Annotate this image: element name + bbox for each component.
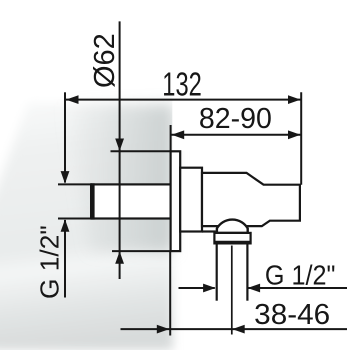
38-46 left-pointing arrowhead: [232, 325, 245, 334]
outlet ring: [214, 233, 250, 244]
white mask right of plate above body: [172, 90, 234, 151]
svg-text:G 1/2": G 1/2": [35, 225, 65, 299]
G 1/2 left up arrowhead: [61, 219, 70, 232]
dimension: Ø62 vertical leader line: [119, 21, 121, 279]
82-90 left arrowhead: [172, 130, 185, 139]
background darker blob near plate: [62, 105, 173, 252]
38-46 right-pointing arrowhead: [157, 325, 170, 334]
G 1/2 left-pointing arrowhead: [248, 284, 261, 293]
outlet dome: [217, 220, 248, 233]
38-46 left extension line (wall face extended down): [169, 251, 171, 335]
dimension: 38-46 line: [121, 328, 348, 330]
left vertical extension line lower: [64, 220, 66, 298]
132 right arrowhead: [288, 95, 301, 104]
svg-text:82-90: 82-90: [199, 102, 272, 134]
dimension: 132 line: [65, 99, 301, 101]
dimension: G 1/2 right, left tail: [179, 287, 215, 289]
dimension: G 1/2 right, right tail: [248, 287, 347, 289]
plate top extension line: [111, 150, 171, 152]
132 left arrowhead: [66, 95, 79, 104]
plate bottom extension line: [112, 250, 171, 252]
collar bottom line extension to ring: [202, 230, 216, 232]
82-90 right arrowhead: [288, 130, 301, 139]
Ø62 down arrowhead: [115, 139, 124, 152]
inlet pipe body: [92, 184, 171, 218]
svg-text:38-46: 38-46: [254, 298, 330, 330]
svg-text:Ø62: Ø62: [89, 33, 121, 88]
outlet center line: [231, 246, 233, 335]
outlet ring thick bottom: [214, 241, 250, 244]
outlet pipe right edge: [246, 243, 248, 300]
wall plate Ø62: [171, 151, 181, 251]
background gradient wash: [0, 103, 173, 350]
svg-text:G 1/2": G 1/2": [265, 260, 336, 291]
dimension: 82-90 line: [171, 134, 301, 136]
G 1/2 right-pointing arrowhead: [203, 284, 216, 293]
82-90 left extension (plate edge extended up): [170, 125, 172, 151]
collar: [180, 168, 202, 232]
inlet pipe bottom extension line: [58, 218, 92, 220]
G 1/2 left down arrowhead: [61, 171, 70, 184]
right vertical extension line: [300, 92, 302, 184]
svg-text:132: 132: [162, 65, 202, 102]
inlet pipe top extension line: [58, 183, 92, 185]
main body with holder bracket: [202, 173, 300, 226]
left vertical extension line (132 / G 1/2) upper: [64, 92, 66, 182]
outlet pipe left edge: [216, 243, 218, 300]
inlet pipe end cap (thick): [90, 183, 95, 219]
Ø62 up arrowhead: [115, 251, 124, 263]
